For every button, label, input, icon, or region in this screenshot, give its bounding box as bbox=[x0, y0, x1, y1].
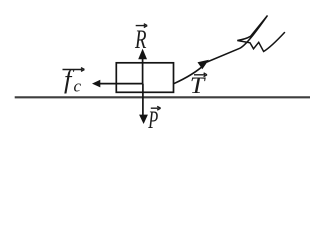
block (box on surface) bbox=[116, 63, 173, 93]
force T arrow shaft (tension, from block corner up-right) bbox=[174, 65, 205, 84]
label P with vector arrow bbox=[148, 106, 161, 134]
force P arrow (weight, downward) bbox=[139, 84, 148, 124]
label R with vector arrow bbox=[134, 24, 147, 54]
force R arrow (normal reaction, upward) bbox=[138, 49, 147, 84]
label f_c with vector arrow bbox=[63, 64, 85, 96]
rope continuing from T arrow to hand squiggle bbox=[207, 16, 285, 63]
ground surface line bbox=[15, 96, 310, 98]
svg-text:R: R bbox=[134, 24, 146, 54]
svg-text:c: c bbox=[74, 77, 82, 96]
label T with vector arrow bbox=[190, 73, 207, 98]
force T arrowhead bbox=[198, 60, 209, 69]
svg-text:P: P bbox=[148, 107, 159, 134]
force f_c arrow (friction, leftward) bbox=[92, 80, 143, 88]
